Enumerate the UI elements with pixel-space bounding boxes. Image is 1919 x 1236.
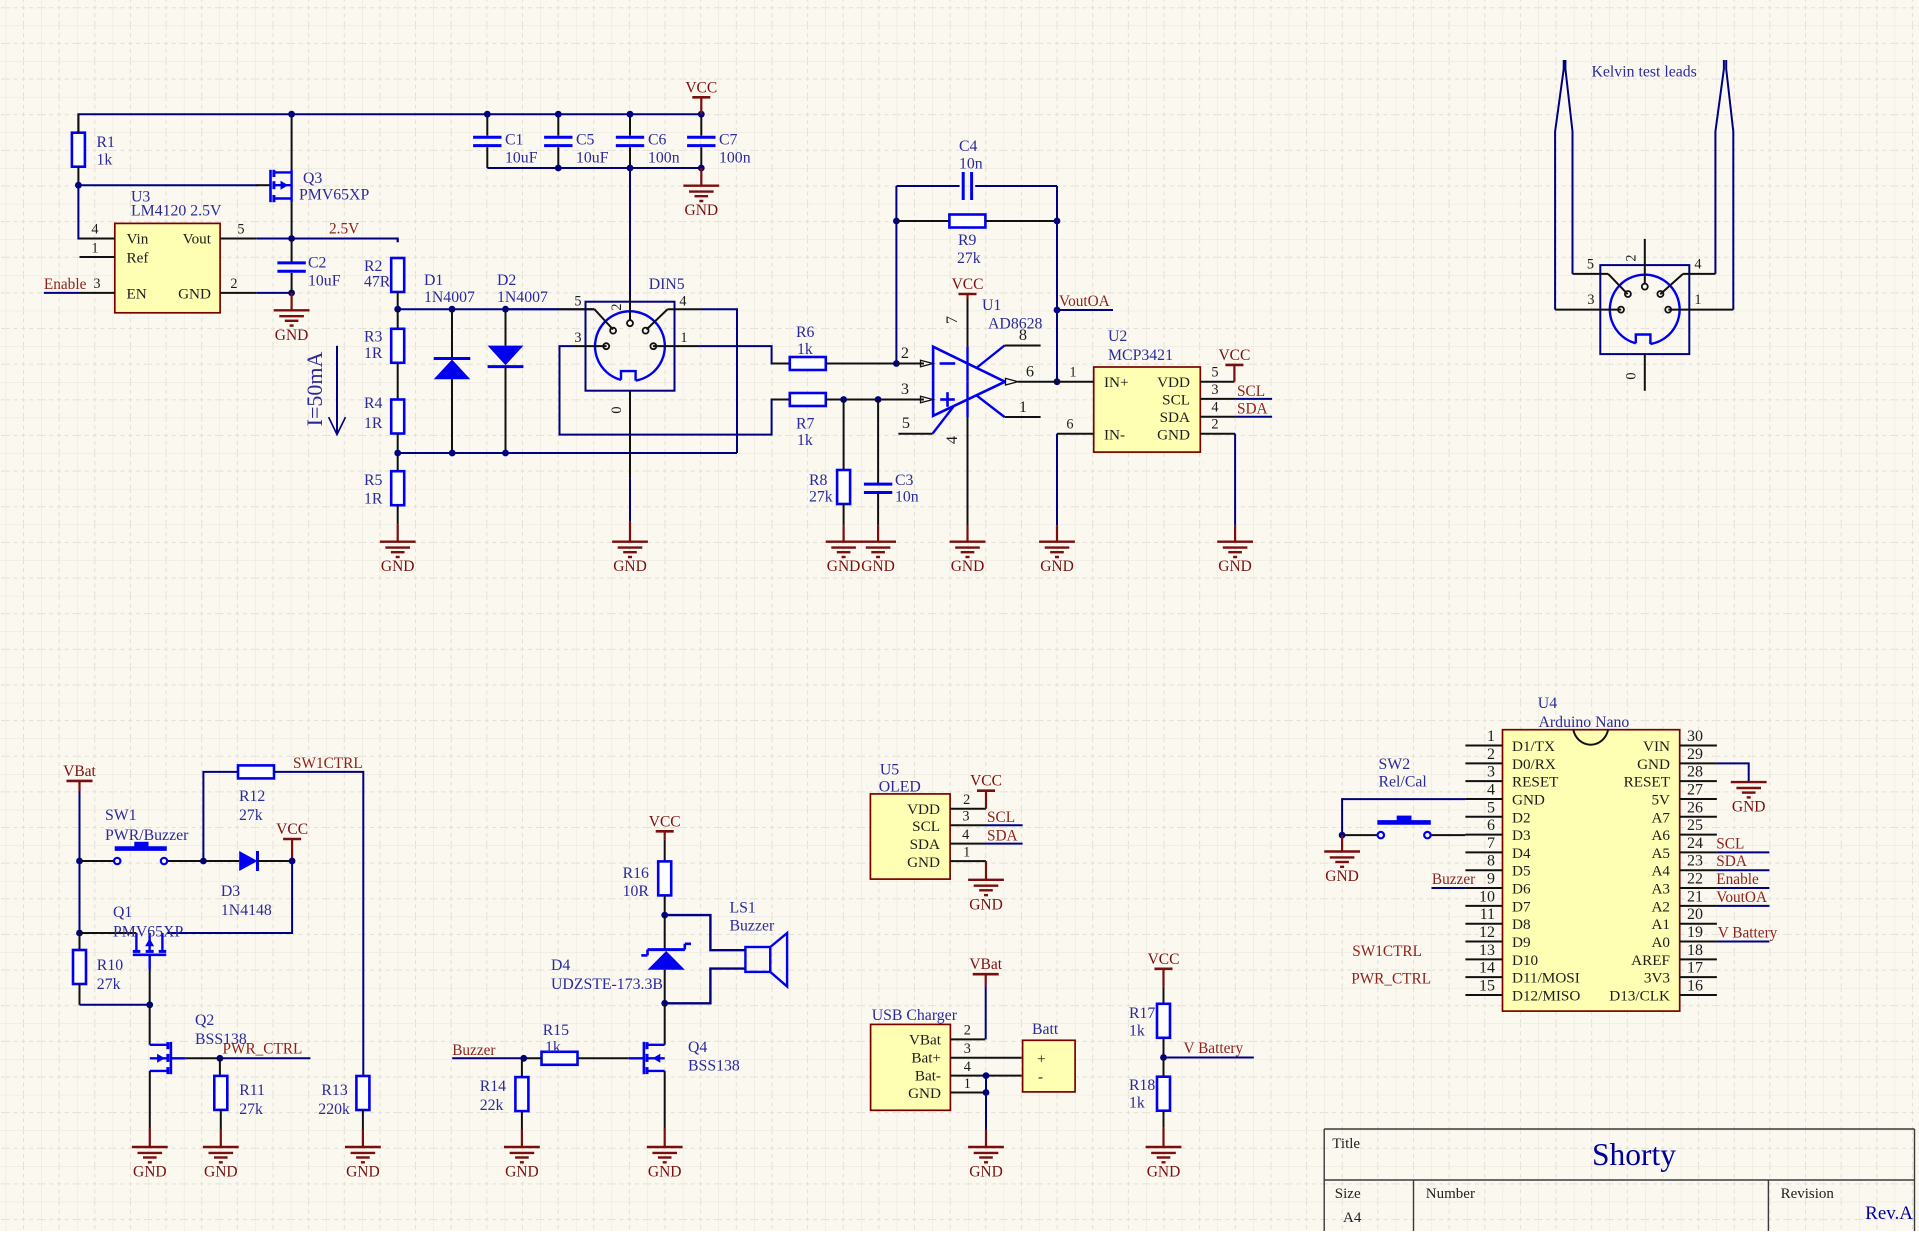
svg-text:1k: 1k — [1129, 1095, 1145, 1112]
ground GND below U1 — [966, 525, 968, 542]
svg-text:C7: C7 — [719, 132, 738, 149]
svg-text:5: 5 — [1487, 799, 1495, 816]
svg-text:LM4120 2.5V: LM4120 2.5V — [131, 203, 222, 220]
svg-text:15: 15 — [1479, 977, 1495, 994]
svg-text:Number: Number — [1426, 1186, 1475, 1202]
svg-text:EN: EN — [127, 286, 147, 303]
svg-text:1: 1 — [1694, 292, 1701, 308]
svg-text:17: 17 — [1687, 960, 1703, 977]
svg-text:SW1CTRL: SW1CTRL — [1352, 943, 1422, 960]
svg-text:GND: GND — [346, 1164, 380, 1181]
svg-text:D4: D4 — [1512, 845, 1531, 862]
svg-text:I=50mA: I=50mA — [302, 352, 327, 427]
ground GND below R18 — [1162, 1127, 1164, 1147]
pin kelvin DIN5.5 — [1573, 273, 1609, 275]
svg-text:V Battery: V Battery — [1184, 1040, 1244, 1057]
wire Q1 gate to R10 node — [149, 969, 151, 1005]
resistor R1 — [72, 133, 85, 167]
svg-text:A6: A6 — [1651, 827, 1670, 844]
svg-text:Q1: Q1 — [113, 904, 132, 921]
svg-text:D7: D7 — [1512, 898, 1531, 915]
svg-text:R5: R5 — [364, 472, 383, 489]
svg-text:U1: U1 — [982, 297, 1001, 314]
svg-text:VBat: VBat — [63, 763, 96, 780]
svg-text:0: 0 — [1624, 372, 1640, 379]
svg-text:12: 12 — [1479, 924, 1495, 941]
svg-text:22: 22 — [1687, 871, 1703, 888]
svg-text:VCC: VCC — [685, 79, 717, 96]
net label V Battery at U4 — [1717, 941, 1770, 943]
svg-text:D1/TX: D1/TX — [1512, 738, 1555, 755]
resistor R17 — [1163, 987, 1165, 1003]
wire VCC node down to Q1 drain — [167, 861, 292, 933]
wire capacitor ground rail — [487, 167, 701, 169]
svg-text:GND: GND — [178, 286, 211, 303]
wire DIN5 pin4 loop to R6 input — [701, 309, 737, 453]
svg-text:R12: R12 — [239, 788, 265, 805]
wire D2 to DIN5 pin5 — [506, 308, 559, 310]
svg-text:GND: GND — [505, 1164, 539, 1181]
svg-text:1R: 1R — [364, 491, 383, 508]
svg-text:R11: R11 — [239, 1082, 265, 1099]
svg-text:1N4007: 1N4007 — [424, 289, 475, 306]
svg-text:C1: C1 — [505, 132, 523, 149]
svg-text:R6: R6 — [796, 324, 815, 341]
wire Q2 gate to PWR_CTRL node — [186, 1057, 220, 1059]
transistor Q4 BSS138 — [647, 1044, 665, 1046]
svg-text:D5: D5 — [1512, 863, 1531, 880]
svg-text:GND: GND — [1147, 1164, 1181, 1181]
svg-text:Title: Title — [1332, 1136, 1360, 1152]
svg-text:1k: 1k — [97, 152, 113, 169]
wire VBat rail down — [79, 791, 81, 933]
svg-text:R2: R2 — [364, 258, 383, 275]
svg-text:Revision: Revision — [1781, 1186, 1835, 1202]
svg-text:10uF: 10uF — [308, 273, 341, 290]
svg-text:VBat: VBat — [909, 1032, 942, 1049]
svg-text:Enable: Enable — [44, 276, 87, 293]
svg-text:R9: R9 — [958, 232, 977, 249]
wire R2 bottom — [397, 292, 399, 309]
svg-text:R7: R7 — [796, 416, 815, 433]
capacitor C5 — [557, 114, 559, 135]
pin U4.2 D0/RX — [1465, 762, 1502, 764]
svg-text:1k: 1k — [545, 1039, 561, 1056]
svg-text:PWR_CTRL: PWR_CTRL — [223, 1041, 303, 1058]
pin U5.3 SCL — [950, 824, 986, 826]
svg-text:GND: GND — [275, 327, 309, 344]
svg-text:U5: U5 — [880, 762, 899, 779]
svg-text:SDA: SDA — [1160, 409, 1190, 426]
svg-text:8: 8 — [1487, 853, 1495, 870]
resistor R4 — [391, 400, 404, 434]
connector DIN5 — [586, 302, 675, 391]
pin U4.18 AREF — [1680, 958, 1717, 960]
svg-text:C3: C3 — [895, 472, 914, 489]
wire U3 GND pin to ground node — [257, 292, 292, 294]
svg-text:1k: 1k — [797, 432, 813, 449]
wire Vout to 2.5V node — [257, 238, 292, 240]
wire USB ground node — [985, 1076, 987, 1130]
svg-text:30: 30 — [1687, 728, 1703, 745]
svg-text:R17: R17 — [1129, 1005, 1155, 1022]
capacitor C1 — [486, 114, 488, 135]
svg-text:3: 3 — [1211, 382, 1218, 398]
svg-text:5: 5 — [902, 413, 910, 432]
svg-text:7: 7 — [942, 316, 961, 324]
ground GND below Q4 — [664, 1128, 666, 1147]
svg-text:Vin: Vin — [127, 231, 149, 248]
resistor R16 — [658, 861, 671, 895]
component Batt — [1023, 1040, 1076, 1092]
pin U4.7 D4 — [1465, 851, 1502, 853]
svg-text:27: 27 — [1687, 781, 1703, 798]
svg-text:Batt: Batt — [1032, 1021, 1059, 1038]
svg-text:Ref: Ref — [127, 250, 150, 267]
svg-text:1k: 1k — [1129, 1023, 1145, 1040]
wire R12 to SW1CTRL runner — [274, 772, 363, 1076]
wire SW2 to U4 GND pin4 — [1342, 799, 1465, 835]
svg-text:10: 10 — [1479, 888, 1495, 905]
svg-text:D2: D2 — [497, 272, 516, 289]
svg-text:C2: C2 — [308, 255, 327, 272]
pin U4.23 A4 — [1680, 869, 1717, 871]
svg-text:100n: 100n — [648, 150, 680, 167]
ground GND below C7 — [700, 168, 702, 186]
pin DIN5.2 — [629, 168, 631, 296]
wire gate node to Q2 drain — [149, 1005, 151, 1045]
svg-text:R1: R1 — [97, 134, 115, 151]
svg-text:A2: A2 — [1651, 898, 1670, 915]
pin U3.1 Ref — [80, 256, 115, 258]
svg-text:D3: D3 — [221, 883, 240, 900]
net label VoutOA — [1057, 309, 1113, 311]
svg-text:1: 1 — [963, 845, 970, 861]
svg-text:Bat+: Bat+ — [911, 1050, 941, 1067]
pin U1.4 V- — [966, 382, 968, 417]
pin U4.17 3V3 — [1680, 976, 1717, 978]
svg-text:R13: R13 — [321, 1082, 347, 1099]
svg-text:10uF: 10uF — [576, 150, 609, 167]
svg-text:A3: A3 — [1651, 881, 1670, 898]
probe right — [1726, 60, 1733, 310]
svg-text:VCC: VCC — [970, 773, 1002, 790]
component U5 OLED — [870, 794, 950, 879]
svg-text:2: 2 — [1487, 746, 1495, 763]
ground GND at U4 — [1748, 781, 1750, 783]
svg-text:D2: D2 — [1512, 809, 1531, 826]
svg-text:23: 23 — [1687, 853, 1703, 870]
svg-text:PWR_CTRL: PWR_CTRL — [1351, 970, 1431, 987]
svg-text:MCP3421: MCP3421 — [1108, 347, 1173, 364]
svg-text:22k: 22k — [480, 1097, 504, 1114]
pin DIN5.4 — [647, 309, 668, 329]
pin U2.5 VDD — [1200, 381, 1234, 383]
power VCC at D3 — [291, 839, 293, 861]
component U3 LM4120 — [115, 223, 220, 312]
svg-text:14: 14 — [1479, 960, 1495, 977]
svg-text:U2: U2 — [1108, 328, 1127, 345]
capacitor C6 — [629, 114, 631, 135]
pin U4.5 D2 — [1465, 816, 1502, 818]
svg-text:A0: A0 — [1651, 934, 1670, 951]
pin U1.6 output — [1018, 381, 1057, 383]
wire C4 left leg — [895, 186, 897, 364]
pin U4.8 D5 — [1465, 869, 1502, 871]
pin U4.29 GND — [1680, 762, 1717, 764]
svg-text:SCL: SCL — [987, 809, 1015, 826]
svg-text:D13/CLK: D13/CLK — [1609, 987, 1670, 1004]
svg-text:SCL: SCL — [1237, 383, 1265, 400]
resistor R10 — [79, 933, 81, 950]
svg-text:3: 3 — [93, 276, 100, 292]
svg-text:VCC: VCC — [952, 276, 984, 293]
pin U4.11 D8 — [1465, 923, 1502, 925]
svg-text:VoutOA: VoutOA — [1059, 293, 1110, 310]
svg-text:PWR/Buzzer: PWR/Buzzer — [105, 827, 189, 844]
pin kelvin DIN5.1 — [1668, 309, 1733, 311]
svg-text:Shorty: Shorty — [1592, 1137, 1676, 1172]
resistor R13 — [356, 1076, 369, 1110]
pin USB.1 GND — [950, 1092, 986, 1094]
svg-text:AREF: AREF — [1631, 952, 1670, 969]
pin U2.4 SDA — [1200, 416, 1235, 418]
svg-text:Vout: Vout — [183, 231, 212, 248]
svg-text:R15: R15 — [543, 1022, 569, 1039]
capacitor C3 — [877, 400, 879, 484]
svg-text:1: 1 — [1487, 728, 1495, 745]
svg-text:3: 3 — [574, 330, 581, 346]
svg-text:9: 9 — [1487, 871, 1495, 888]
svg-text:1N4007: 1N4007 — [497, 289, 548, 306]
wire zener bottom to Q4 drain — [664, 1003, 666, 1045]
wire U2 IN- to ground — [1056, 434, 1058, 525]
pin kelvin DIN5.4 — [1660, 274, 1683, 294]
wire DIN5 shield to ground — [629, 478, 631, 521]
svg-text:1R: 1R — [364, 345, 383, 362]
pin U4.4 GND — [1465, 798, 1502, 800]
resistor R14 — [521, 1058, 523, 1076]
title block frame — [1324, 1128, 1914, 1130]
power VCC above U1 — [966, 294, 968, 299]
wire SW1 to R12 and D3 — [203, 772, 238, 861]
svg-text:10n: 10n — [895, 489, 919, 506]
svg-text:D8: D8 — [1512, 916, 1531, 933]
pin U5.1 GND — [950, 860, 986, 862]
node D1 D2 top wire — [398, 308, 595, 310]
svg-text:1: 1 — [964, 1076, 971, 1092]
svg-text:PMV65XP: PMV65XP — [113, 924, 183, 941]
svg-text:13: 13 — [1479, 942, 1495, 959]
pin U2.3 SCL — [1200, 398, 1235, 400]
pin U4.9 D6 — [1465, 887, 1502, 889]
svg-text:GND: GND — [908, 1085, 941, 1102]
ground GND below C3 — [877, 525, 879, 541]
svg-text:2: 2 — [901, 343, 909, 362]
svg-text:5: 5 — [1211, 365, 1218, 381]
pin U1.7 V+ — [967, 299, 969, 347]
svg-text:D3: D3 — [1512, 827, 1531, 844]
pin kelvin DIN5.3 — [1555, 309, 1621, 311]
wire C4 R9 right leg to output — [1056, 186, 1058, 382]
resistor R7 — [772, 399, 790, 401]
svg-text:C5: C5 — [576, 132, 595, 149]
svg-text:20: 20 — [1687, 906, 1703, 923]
power VCC at U2 — [1233, 365, 1235, 382]
svg-text:SDA: SDA — [987, 828, 1018, 845]
svg-text:GND: GND — [613, 558, 647, 575]
pin U4.27 5V — [1680, 798, 1717, 800]
transistor Q1 PMV65XP — [80, 932, 137, 934]
svg-text:VoutOA: VoutOA — [1716, 889, 1767, 906]
svg-text:GND: GND — [381, 558, 415, 575]
svg-text:SCL: SCL — [912, 818, 940, 835]
svg-text:10R: 10R — [623, 883, 650, 900]
power VCC at R17 — [1162, 969, 1164, 987]
wire Q3 drain up to rail — [291, 114, 293, 170]
resistor R8 — [843, 400, 845, 471]
svg-text:5V: 5V — [1651, 791, 1670, 808]
svg-text:VBat: VBat — [969, 956, 1002, 973]
svg-text:10n: 10n — [959, 156, 983, 173]
svg-text:220k: 220k — [318, 1101, 350, 1118]
svg-text:Rel/Cal: Rel/Cal — [1379, 774, 1428, 791]
pin kelvin DIN5.2 — [1644, 239, 1646, 284]
pin U4.15 D12/MISO — [1465, 994, 1502, 996]
svg-text:Size: Size — [1335, 1186, 1361, 1202]
svg-text:GND: GND — [951, 558, 985, 575]
svg-text:R16: R16 — [623, 865, 649, 882]
pin U1.8 trim — [977, 346, 1005, 368]
svg-text:6: 6 — [1026, 362, 1034, 381]
pin U3.5 Vout — [220, 238, 257, 240]
pin U4.6 D3 — [1465, 834, 1502, 836]
svg-text:27k: 27k — [957, 250, 981, 267]
svg-text:0: 0 — [609, 406, 625, 413]
ground GND below R11 — [220, 1129, 222, 1147]
svg-text:SDA: SDA — [1237, 401, 1268, 418]
svg-text:1N4148: 1N4148 — [221, 902, 272, 919]
pin U4.20 A1 — [1680, 923, 1717, 925]
capacitor C4 — [896, 185, 959, 187]
capacitor C2 — [291, 239, 293, 263]
ground GND below R5 — [397, 524, 399, 542]
pin U4.24 A5 — [1680, 851, 1717, 853]
svg-text:D0/RX: D0/RX — [1512, 756, 1556, 773]
svg-text:2: 2 — [963, 792, 970, 808]
svg-text:3: 3 — [901, 379, 909, 398]
pin U4.22 A3 — [1680, 887, 1717, 889]
svg-text:GND: GND — [1040, 558, 1074, 575]
pin U1.2 inverting — [896, 363, 924, 365]
pin U4.30 VIN — [1680, 745, 1717, 747]
svg-text:3V3: 3V3 — [1644, 970, 1670, 987]
svg-text:VCC: VCC — [1218, 347, 1250, 364]
svg-text:Q3: Q3 — [303, 170, 322, 187]
svg-text:24: 24 — [1687, 835, 1703, 852]
pin DIN5.1 — [653, 345, 700, 347]
svg-text:GND: GND — [685, 202, 719, 219]
svg-text:7: 7 — [1487, 835, 1495, 852]
svg-text:C6: C6 — [648, 132, 667, 149]
svg-text:SW2: SW2 — [1379, 756, 1411, 773]
power VCC top — [700, 97, 702, 114]
svg-text:GND: GND — [969, 1164, 1003, 1181]
svg-text:LS1: LS1 — [730, 900, 756, 917]
pin U1.5 trim — [933, 406, 955, 434]
svg-text:C4: C4 — [959, 138, 978, 155]
svg-text:DIN5: DIN5 — [649, 276, 685, 293]
svg-text:Arduino Nano: Arduino Nano — [1539, 714, 1630, 731]
wire U2 GND pin to ground — [1234, 434, 1236, 525]
svg-text:Buzzer: Buzzer — [1432, 871, 1475, 888]
resistor R15 — [578, 1057, 629, 1059]
pin U1.3 noninverting — [921, 399, 924, 401]
capacitor C7 — [700, 114, 702, 135]
wire Vin from R1 node — [78, 185, 79, 238]
svg-text:GND: GND — [1325, 868, 1359, 885]
svg-text:GND: GND — [204, 1164, 238, 1181]
wire R16 to zener node — [664, 896, 666, 916]
pin U4.28 RESET — [1680, 780, 1717, 782]
svg-text:VCC: VCC — [1148, 951, 1180, 968]
wire buzzer bottom branch — [665, 969, 746, 1004]
svg-text:R3: R3 — [364, 329, 383, 346]
component U4 Arduino Nano — [1503, 730, 1680, 1011]
pin U5.2 VDD — [950, 808, 986, 810]
svg-text:Kelvin test leads: Kelvin test leads — [1592, 64, 1697, 81]
transistor Q3 PMV65XP — [257, 184, 271, 186]
svg-text:1: 1 — [1019, 397, 1027, 416]
wire R1 bottom to Q3 gate — [78, 184, 258, 186]
pin U3.3 EN — [80, 292, 115, 294]
resistor R9 — [896, 220, 949, 222]
pin U2.1 IN+ — [1057, 381, 1094, 383]
svg-text:GND: GND — [1157, 427, 1190, 444]
ground GND below R13 — [362, 1129, 364, 1147]
svg-text:4: 4 — [962, 827, 969, 843]
switch SW1 PWR/Buzzer — [80, 860, 115, 862]
pin U4.12 D9 — [1465, 941, 1502, 943]
svg-text:R4: R4 — [364, 395, 383, 412]
svg-text:28: 28 — [1687, 764, 1703, 781]
svg-text:16: 16 — [1687, 977, 1703, 994]
wire 2.5V to R2 — [292, 239, 398, 243]
pin U4.3 RESET — [1465, 780, 1502, 782]
pin U4.13 D10 — [1465, 958, 1502, 960]
pin U4.26 A7 — [1680, 816, 1717, 818]
svg-text:R14: R14 — [480, 1078, 506, 1095]
wire VCC to R16 — [664, 840, 666, 862]
resistor R12 — [238, 765, 274, 778]
svg-text:5: 5 — [237, 222, 244, 238]
pin U3.4 Vin — [80, 238, 115, 240]
pin DIN5.3 — [573, 345, 607, 347]
svg-text:IN-: IN- — [1104, 427, 1125, 444]
ground GND below USB — [985, 1130, 987, 1148]
svg-text:D12/MISO: D12/MISO — [1512, 987, 1580, 1004]
svg-text:U4: U4 — [1538, 695, 1557, 712]
svg-text:D1: D1 — [424, 272, 443, 289]
svg-text:GND: GND — [1218, 558, 1252, 575]
svg-text:V Battery: V Battery — [1718, 925, 1778, 942]
power VBat left — [78, 781, 80, 791]
power VCC buzzer — [664, 831, 666, 839]
pin U4.1 D1/TX — [1465, 745, 1502, 747]
svg-text:Enable: Enable — [1716, 871, 1759, 888]
svg-text:19: 19 — [1687, 924, 1703, 941]
pin U4.19 A0 — [1680, 941, 1717, 943]
